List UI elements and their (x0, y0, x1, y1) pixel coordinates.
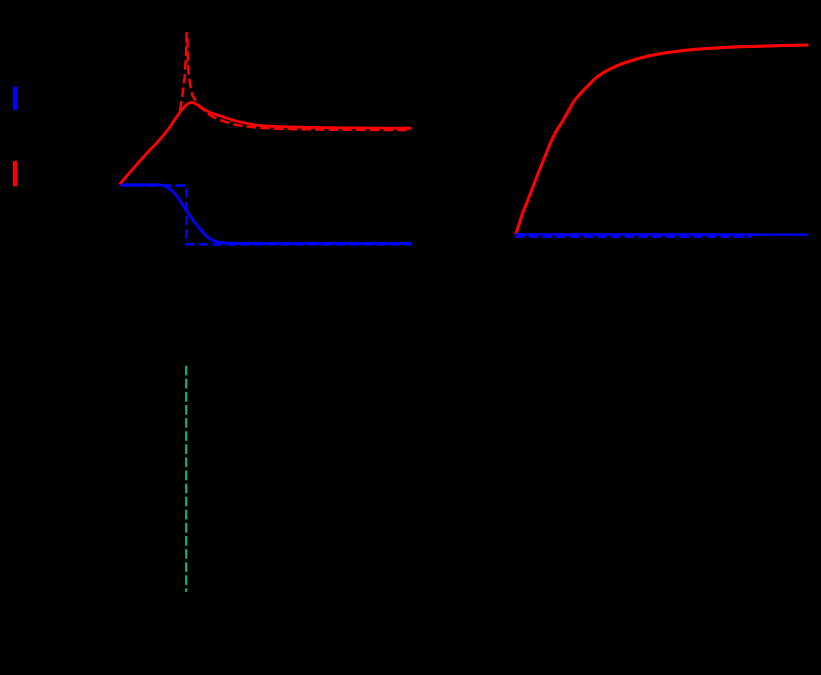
legend dash red (ylabel marker) (13, 161, 17, 186)
left plot: blue solid sigmoid (121, 185, 411, 244)
left plot: red dashed curve with spike (120, 34, 412, 185)
legend dash blue (ylabel marker) (13, 87, 17, 111)
left plot: blue dashed step (121, 186, 412, 245)
right plot: red solid saturating curve (515, 45, 808, 235)
left plot: red solid curve (120, 102, 412, 184)
right plot: blue dashed line (515, 235, 752, 237)
right plot: blue solid line (515, 233, 808, 236)
green dashed vertical marker line (185, 366, 187, 592)
